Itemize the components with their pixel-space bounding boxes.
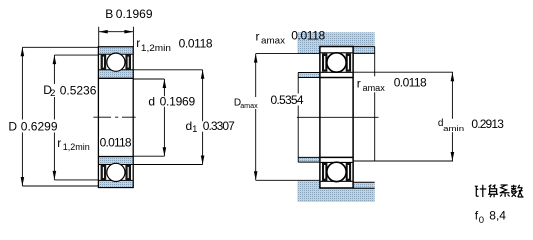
svg-text:8,4: 8,4 [489,209,506,223]
svg-text:0.3307: 0.3307 [203,119,235,133]
label D 0.6299 [8,120,60,133]
svg-text:0.1969: 0.1969 [160,95,196,109]
dimension d: vertical line [163,79,165,156]
top edge of right bottom section [320,156,353,158]
centerline (left bearing axis, dash-dot) [93,116,135,118]
svg-text:0.0118: 0.0118 [394,76,427,90]
svg-text:amax: amax [240,101,258,110]
svg-text:0.0118: 0.0118 [291,29,325,43]
dimension D2: extension lines [54,55,98,180]
seal left (bottom section) [101,165,107,180]
inner ring band bottom edge line [99,164,133,166]
svg-text:0: 0 [479,215,484,226]
svg-text:0.0118: 0.0118 [100,135,132,149]
svg-text:d: d [148,95,155,109]
ra extension vertical line (housing bore corner down) [374,47,376,161]
housing top block (blue) [297,32,374,53]
label damin 0.2913 [437,119,466,132]
centerline (right bearing axis) [297,116,379,118]
seal right (bottom section) [125,165,131,180]
svg-text:0.6299: 0.6299 [21,119,58,133]
ball (bottom section) [107,163,125,181]
outer ring band top edge line [99,179,133,181]
label ramax 0.0118 (right) [356,76,388,92]
shaft shoulder bottom bar (blue) [298,158,320,162]
outer ring band bottom edge line [99,53,133,55]
seal right (top section) [125,55,131,70]
seal left (top section) [101,55,107,70]
dimension B: extension lines above bearing [99,27,134,47]
svg-text:0.0118: 0.0118 [179,37,213,51]
dimension d1: extension lines [133,70,202,165]
dimension D: extension lines [22,47,98,186]
ball (right top section) [327,53,346,72]
glyph 算 [488,185,498,197]
svg-text:D: D [8,119,17,133]
svg-text:1,2min: 1,2min [141,43,171,54]
inner ring band bottom edge (right bottom section) [321,161,353,163]
seal left (right bottom section) [322,163,327,181]
outer ring band bottom edge (right top section) [321,52,353,54]
dimension D2: arrowheads [53,55,57,180]
dimension Damax: vertical line [255,54,257,181]
svg-text:r: r [357,76,361,90]
dimension damin: arrowheads [451,72,455,161]
dimension damin: vertical line [451,72,453,161]
shaft shoulder top bar edges [298,73,320,78]
svg-text:B: B [105,7,113,21]
dimension Damax: extension lines (housing shoulder corners) [256,54,320,181]
outer ring band top edge (right bottom section) [321,180,353,182]
svg-text:0.5236: 0.5236 [60,84,97,98]
dimension D2: vertical line [53,55,55,180]
shaft shoulder top bar (blue) [298,73,320,78]
housing bottom: shoulder lip top line right [353,181,375,183]
dimension Damax: arrowheads [254,54,258,181]
dimension d: arrowheads [163,79,167,156]
inner ring band top edge (right top section) [321,71,353,73]
svg-text:0.5354: 0.5354 [271,93,304,107]
seal left (right top section) [322,53,327,71]
inner ring band blue (bottom section) [99,157,133,164]
label Damax 0.5354 [233,97,259,109]
shaft shoulder face vertical line [297,73,299,163]
housing top: bore edge line right of bearing [353,46,375,48]
bottom edge of right top section [320,77,353,79]
svg-text:r: r [256,29,260,43]
dimension damin: extension lines [353,72,453,161]
label D2 0.5236 [42,84,56,97]
glyph 数 [511,185,523,197]
dimension B: line [99,31,134,33]
glyph 计 [475,185,487,197]
bearing outer rectangle (left) [98,47,133,188]
housing bottom: bore edge line right of bearing [353,187,375,189]
svg-text:0.2913: 0.2913 [471,117,504,131]
svg-text:2: 2 [50,88,55,99]
inner ring band top edge line [99,69,133,71]
inner ring band blue (top section) [99,70,133,78]
glyph 系 [500,185,510,197]
ball (right bottom section) [327,162,346,181]
dimension d: extension lines [133,79,164,156]
bearing outer rectangle (right) [320,47,353,189]
dimension D: vertical line [21,47,23,186]
dimension D: arrowheads [21,47,25,186]
housing top: shoulder lip bottom line right [353,52,375,54]
ball (top section) [107,53,125,71]
svg-text:amin: amin [443,124,464,133]
outer ring band blue (bottom section) [99,180,133,187]
bottom edge of top section [98,77,133,79]
top edge of bottom section [98,156,133,158]
dimension d1: arrowheads [201,70,205,165]
svg-text:1: 1 [192,124,197,135]
dimension B: arrowheads [99,30,134,34]
svg-text:amax: amax [363,83,386,94]
svg-text:r: r [136,36,140,50]
housing bottom block (blue) [297,181,374,202]
label CJK: 计算系数 (drawn strokes) [475,185,524,197]
outer ring top band blue (top section) [99,47,133,54]
svg-text:r: r [57,136,61,150]
seal right (right top section) [346,53,351,71]
svg-text:amax: amax [261,36,285,47]
svg-text:0.1969: 0.1969 [116,7,153,21]
svg-text:1,2min: 1,2min [63,142,90,153]
seal right (right bottom section) [346,163,351,181]
shaft shoulder bottom bar edges [298,157,320,162]
dimension d1: vertical line [202,70,204,165]
